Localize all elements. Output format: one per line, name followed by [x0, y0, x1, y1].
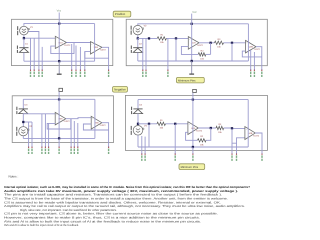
sheet border bottom-right sheet [125, 95, 267, 150]
wire TR U2B out [256, 47, 262, 71]
wire TR diode to rail [137, 52, 139, 61]
net label A11 [84, 69, 85, 77]
wire BR top rail [138, 99, 248, 101]
wire TL U1B out [102, 47, 109, 70]
svg-text:U2A: U2A [192, 42, 197, 45]
wire TR stub b [145, 38, 147, 70]
junction TL gnd-rail junction [58, 60, 60, 62]
junction TR gnd-rail junction [191, 60, 193, 62]
net label A10 [42, 69, 43, 77]
svg-text:Notes :: Notes : [9, 174, 19, 178]
wire BR bottom rail [138, 146, 248, 148]
wire TR U2B power col [247, 24, 249, 61]
wire TR U2A out [199, 42, 215, 44]
wire TR junction to diode [137, 38, 139, 47]
wire TL source tap [28, 32, 39, 71]
wire BR j3 exit [231, 143, 233, 154]
net label A40 [175, 153, 176, 161]
net label B31 [74, 146, 75, 154]
wire BR U4B power col [247, 100, 249, 147]
svg-text:TL072: TL072 [197, 44, 204, 47]
wire TL stub8 [84, 52, 86, 71]
svg-text:U4A: U4A [191, 127, 196, 130]
svg-text:Minimum Pins: Minimum Pins [178, 78, 196, 82]
wire BR signal row [138, 123, 157, 125]
diode D3 [16, 104, 28, 114]
wire BL stub3 [41, 114, 43, 148]
wire TL stub6 [75, 46, 77, 71]
net label C21 [250, 69, 251, 77]
annotation label Positive [113, 11, 131, 17]
wire BR U4B out [255, 133, 262, 154]
op-amp U1B [91, 42, 107, 54]
junction BR vee-rail junction [192, 98, 194, 100]
svg-text:TL072: TL072 [64, 44, 71, 47]
wire BR stub b [144, 137, 146, 155]
junction BL vee-rail junction [58, 98, 60, 100]
net label B30 [31, 146, 32, 154]
resistor R1 [157, 119, 166, 130]
wire TL stub2 [33, 38, 35, 70]
wire TL Vcc stub [58, 13, 60, 62]
svg-text:Negative: Negative [114, 87, 126, 91]
junction BR tap junction [137, 123, 139, 125]
net label A31 [77, 146, 78, 154]
wire TR stub d [250, 50, 252, 70]
wire TL stub1 [30, 38, 32, 70]
wire BR source to rail [137, 135, 139, 147]
op-amp U4B [245, 127, 260, 140]
junction BR out junction [210, 127, 212, 129]
net label A30 [45, 146, 46, 154]
svg-text:TL072: TL072 [63, 120, 70, 123]
net label B20 [145, 69, 146, 77]
svg-text:TL072: TL072 [100, 49, 107, 52]
svg-text:TL072: TL072 [253, 134, 260, 137]
net label B41 [236, 153, 237, 161]
svg-text:TL072: TL072 [254, 48, 261, 51]
wire TL U1A feedback [51, 43, 74, 54]
sheet border top-left sheet [12, 19, 113, 65]
svg-text:Vcc: Vcc [192, 11, 197, 14]
wire BL Vee stub [58, 92, 60, 139]
net label D30 [48, 146, 49, 154]
junction BL gnd-rail junction [58, 137, 60, 139]
net label Out [108, 69, 109, 77]
wire TL diode to rail [23, 52, 25, 61]
net label E30 [41, 146, 42, 154]
junction BR j2 [174, 123, 176, 125]
resistor R3 [215, 38, 224, 49]
wire TL stub4 [41, 47, 43, 70]
wire TR stub e [253, 52, 255, 70]
signal source V1 [17, 26, 33, 35]
wire TL U1B power col [94, 24, 96, 62]
ground TR [189, 61, 194, 74]
wire BL U3B out [102, 123, 109, 148]
net label C30 [28, 146, 29, 154]
op-amp U1A [55, 36, 71, 48]
junction BR j1 [148, 123, 150, 125]
wire TR signal row 2 [166, 37, 188, 39]
signal source V2 [131, 24, 148, 34]
net label Out [261, 153, 262, 161]
resistor R3 [216, 123, 224, 134]
power flag (BL) [59, 88, 63, 91]
wire BL +in row [23, 113, 55, 115]
wire TR stub a [142, 38, 144, 70]
wire TL bottom rail [24, 60, 95, 62]
net label Out [261, 69, 262, 77]
svg-text:Vcc: Vcc [57, 10, 62, 13]
wire BR U4A out [198, 127, 216, 129]
wire TR j2 down [175, 38, 177, 61]
wire BR R3 to + [224, 127, 245, 130]
wire BR R2 to -in [186, 132, 198, 140]
wire TR U2B feedback [242, 51, 261, 57]
wire BR j1 down [148, 124, 150, 147]
wire BL bottom rail [23, 137, 95, 139]
wire TR bottom rail [138, 60, 249, 62]
svg-text:U2B: U2B [249, 46, 254, 49]
net label B10 [34, 69, 35, 77]
wire BR j3 feedback [232, 129, 245, 144]
wire BL top rail [23, 98, 95, 100]
wire BL U3B power col [94, 99, 96, 138]
net label C41 [231, 153, 232, 161]
net label C20 [142, 69, 143, 77]
diode D2 [131, 43, 143, 53]
wire BL stub7 [73, 121, 75, 147]
wire TR stub c [167, 38, 169, 70]
net label E10 [38, 69, 39, 77]
junction TR out junction [209, 42, 211, 44]
junction BR gnd-rail junction [192, 146, 194, 148]
sheet border top-right sheet [126, 19, 267, 65]
wire BL tap row [23, 121, 32, 123]
wire TL U1B feedback [85, 52, 109, 59]
wire TR Vcc stub [191, 14, 193, 61]
wire TR R3 to + [224, 42, 246, 44]
wire BL stub4 [44, 114, 46, 148]
signal source V3 [16, 125, 33, 136]
wire TR j3 down [231, 43, 233, 61]
ground TL [57, 61, 62, 74]
wire BL stub2 [31, 122, 33, 147]
junction TR j2 [175, 37, 177, 39]
net label Vee [192, 153, 193, 161]
wire TL stub7 [79, 47, 81, 70]
op-amp U2B [246, 40, 261, 53]
diode D4 [131, 104, 143, 114]
wire BL U3A feedback [47, 119, 71, 129]
power flag (BR) [193, 89, 197, 92]
wire TR top rail [138, 24, 249, 26]
wire BL source to rail [22, 136, 24, 139]
svg-text:U4B: U4B [248, 132, 253, 135]
wire TL junction to diode [23, 38, 25, 48]
wire BL stub5 [48, 123, 50, 147]
wire TR source to row [137, 35, 139, 39]
sheet border bottom-left sheet [12, 96, 113, 143]
net label B21 [254, 69, 255, 77]
wire BR j2 down [174, 124, 176, 154]
resistor R1 [157, 34, 166, 45]
net label Vcm2 [167, 69, 168, 77]
wire BL gnd stub [58, 138, 60, 147]
resistor R2 [198, 135, 207, 146]
op-amp U3A [55, 112, 70, 125]
wire BL stub6 [70, 119, 72, 147]
wire TL U1A out [67, 42, 91, 44]
wire BL U3A out [66, 118, 91, 119]
wire BR signal row 2 [166, 123, 188, 125]
op-amp U3B [91, 116, 106, 129]
wire BL rail to diode [22, 99, 24, 109]
wire BR R2 right leg [206, 128, 211, 140]
annotation label Minimum Pins [179, 164, 205, 170]
net label C31 [70, 146, 71, 154]
net label B11 [75, 69, 76, 77]
annotation label Minimum Pins [176, 77, 204, 83]
net label E11 [80, 69, 81, 77]
junction TL vcc-rail junction [58, 22, 60, 24]
op-amp U2A [188, 37, 203, 50]
junction BL tap junction [22, 121, 24, 123]
op-amp U4A [188, 122, 203, 135]
junction TR j1 [148, 37, 150, 39]
wire TR signal row [138, 37, 158, 39]
net label C40 [141, 153, 142, 161]
wire TL top rail [24, 24, 95, 26]
wire BR Vee stub [192, 93, 194, 147]
net label C11 [71, 69, 72, 77]
junction TR vcc-rail junction [191, 23, 193, 25]
wire TR fb right link [206, 53, 211, 55]
resistor R2 [198, 49, 206, 60]
wire BL stub8 [77, 123, 79, 147]
wire TR U2A fb right leg [210, 43, 212, 55]
net label Gnd [58, 146, 59, 154]
svg-text:Minimum Pins: Minimum Pins [181, 165, 199, 169]
signal source V4 [131, 125, 148, 136]
svg-text:TL072: TL072 [99, 124, 106, 127]
wire BL diode to junction [22, 114, 24, 127]
wire BR gnd stub [192, 147, 194, 154]
wire BR rail to diode [137, 100, 139, 109]
svg-text:TL072: TL072 [196, 129, 203, 132]
wire TL source to +in [24, 35, 55, 38]
svg-text:AVs and AI is allow to built t: AVs and AI is allow to built the input c… [4, 223, 79, 227]
wire BL U3B feedback [83, 124, 108, 130]
junction BR j3 [231, 127, 233, 129]
net label B40 [144, 153, 145, 161]
wire BR diode to circle [137, 114, 139, 126]
wire TL stub5 [71, 44, 73, 70]
junction TR j3 [231, 42, 233, 44]
junction TL source junction [23, 37, 25, 39]
net label C10 [30, 69, 31, 77]
svg-text:Positive: Positive [115, 12, 126, 16]
annotation label Negative [113, 87, 128, 93]
net label Out [108, 146, 109, 154]
wire BR stub a [141, 136, 143, 154]
wire TR U2A fb left leg [181, 46, 198, 54]
wire BR stub e [236, 143, 238, 154]
junction TR source junction [137, 37, 139, 39]
wire BL stub1 [28, 122, 30, 147]
diode D1 [17, 43, 29, 53]
